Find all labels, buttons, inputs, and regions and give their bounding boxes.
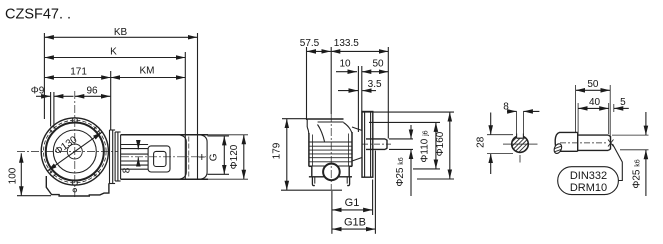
svg-text:G1: G1 [345, 197, 360, 209]
svg-text:50: 50 [587, 79, 599, 90]
svg-text:Φ25 k6: Φ25 k6 [395, 157, 406, 186]
svg-text:8: 8 [503, 102, 509, 113]
svg-text:G: G [209, 153, 220, 161]
svg-text:K: K [110, 47, 117, 58]
svg-text:96: 96 [86, 86, 98, 97]
svg-text:100: 100 [8, 167, 19, 184]
svg-text:8: 8 [122, 167, 133, 173]
svg-text:CZSF47. .: CZSF47. . [5, 7, 71, 23]
svg-text:3.5: 3.5 [368, 79, 382, 90]
svg-text:50: 50 [372, 58, 384, 69]
svg-text:Φ25 k6: Φ25 k6 [632, 159, 643, 188]
svg-text:Φ9: Φ9 [31, 86, 45, 97]
svg-text:DIN332: DIN332 [570, 170, 607, 182]
svg-text:KB: KB [114, 27, 128, 38]
svg-text:DRM10: DRM10 [570, 182, 607, 194]
svg-text:171: 171 [70, 67, 87, 78]
svg-text:Φ160: Φ160 [435, 131, 446, 156]
svg-text:10: 10 [339, 58, 351, 69]
svg-text:5: 5 [620, 97, 626, 108]
svg-text:Φ110 j6: Φ110 j6 [420, 130, 431, 162]
svg-text:KM: KM [140, 66, 155, 77]
svg-text:133.5: 133.5 [334, 38, 359, 49]
svg-text:179: 179 [271, 142, 282, 159]
svg-text:28: 28 [476, 136, 487, 148]
svg-text:57.5: 57.5 [300, 38, 320, 49]
svg-text:Φ130: Φ130 [53, 134, 80, 157]
svg-text:40: 40 [589, 97, 601, 108]
svg-text:Φ120: Φ120 [229, 144, 240, 169]
svg-text:G1B: G1B [344, 216, 366, 228]
